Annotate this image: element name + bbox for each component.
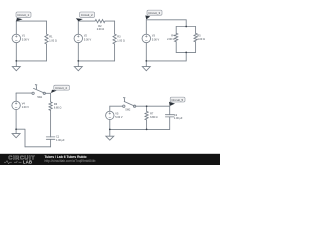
svg-text:Circuit_2: Circuit_2: [81, 13, 93, 17]
label: Circuit_2 tag: [76, 12, 95, 21]
wire: circuit 4 top wire to switch: [16, 92, 32, 94]
voltage source V1: [12, 34, 21, 43]
node: junction block bottom: [185, 52, 187, 54]
voltage source V5: [106, 111, 114, 119]
label: Circuit_1 tag: [16, 12, 31, 21]
label: C1 value: [56, 136, 65, 142]
wire: V1 bottom lead: [15, 43, 17, 61]
wire: switch to C2 corner: [136, 105, 170, 107]
wire: circuit 3 top wire: [146, 19, 186, 21]
wire: stub from parallel block bottom: [185, 52, 187, 61]
label: R1 value: [49, 35, 57, 42]
resistor R1: [45, 34, 48, 44]
wire: V5 bottom lead: [109, 120, 111, 130]
svg-text:5.00 V: 5.00 V: [115, 116, 123, 119]
label: R3 value: [117, 35, 125, 42]
ground (circuit 4): [15, 129, 17, 133]
node: junction circuit 3 ground: [145, 60, 147, 62]
node: junction circuit 5 ground: [109, 129, 111, 131]
svg-text:6.80 Ω: 6.80 Ω: [150, 116, 158, 119]
resistor R4: [175, 33, 178, 41]
wire: R3 top lead: [114, 21, 116, 34]
label: Circuit_5 tag: [169, 97, 185, 106]
voltage source V2: [74, 34, 83, 43]
capacitor C1: [46, 137, 55, 139]
node: junction R7 bottom: [146, 129, 148, 131]
label: Circuit_3 tag: [145, 10, 162, 19]
wire: V2 bottom lead: [77, 43, 79, 61]
CircuitLab logo: [4, 156, 35, 165]
resistor R5: [194, 33, 197, 41]
wire: R3 bottom lead: [114, 44, 116, 61]
svg-text:Circuit_4: Circuit_4: [55, 86, 67, 90]
label: R7 value: [150, 112, 158, 119]
wire: circuit 2 top wire right segment: [105, 20, 114, 22]
node: junction circuit 1 ground: [15, 60, 17, 62]
wire: circuit 5 top wire to switch: [110, 105, 123, 107]
label: V3 value: [152, 35, 160, 42]
switch SW2: [123, 105, 125, 107]
voltage source V3: [142, 34, 151, 43]
wire: R7 bottom lead: [146, 120, 148, 129]
label: V5 value: [115, 112, 123, 119]
wire: parallel block bottom bar: [176, 51, 195, 53]
svg-text:Circuit_1: Circuit_1: [17, 13, 29, 17]
label: Circuit_4 tag: [51, 85, 69, 93]
wire: circuit 3 bottom wire: [146, 60, 186, 62]
resistor R7: [145, 111, 148, 119]
svg-text:1.00 µF: 1.00 µF: [174, 117, 183, 120]
ground (circuit 1): [15, 61, 17, 67]
wire: R1 bottom lead: [46, 44, 48, 61]
wire: circuit 2 bottom wire: [78, 60, 114, 62]
wire: R4 top lead: [175, 27, 177, 34]
ground (circuit 5): [109, 129, 111, 136]
svg-text:SW1: SW1: [37, 97, 43, 99]
svg-text:5.00 V: 5.00 V: [152, 39, 160, 42]
wire: R5 bottom lead: [195, 42, 197, 53]
svg-text:1.00 µF: 1.00 µF: [56, 139, 65, 142]
wire: V3 bottom lead: [145, 43, 147, 61]
wire: C2 top lead: [169, 106, 171, 115]
label: R2 value: [97, 25, 105, 31]
svg-text:http://circuitlab.com/c/7vq59m: http://circuitlab.com/c/7vq59mkt84tb: [45, 159, 96, 163]
wire: circuit 2 top wire left segment: [78, 20, 95, 22]
wire: C2 bottom lead: [169, 117, 171, 129]
wire: V4 bottom lead: [15, 110, 17, 130]
svg-text:SW2: SW2: [125, 110, 131, 112]
label: R5 value: [197, 34, 205, 41]
wire: circuit 4 left vertical (V4 top lead): [15, 93, 17, 101]
svg-text:2.00 Ω: 2.00 Ω: [97, 28, 105, 31]
ground (circuit 2): [77, 61, 79, 67]
svg-text:2.00 Ω: 2.00 Ω: [167, 38, 175, 41]
wire: switch to corner: [46, 93, 51, 102]
wire: R4 bottom lead: [175, 42, 177, 53]
node: junction block top: [185, 26, 187, 28]
svg-text:Circuit_5: Circuit_5: [171, 98, 183, 102]
label: V1 value: [22, 35, 30, 42]
wire: parallel block top bar: [176, 26, 195, 28]
svg-text:1.00 Ω: 1.00 Ω: [197, 38, 205, 41]
svg-text:5.00 V: 5.00 V: [84, 39, 92, 42]
node: junction circuit 2 ground: [77, 60, 79, 62]
wire: stub into parallel block top: [185, 20, 187, 27]
node: junction R7 top: [146, 105, 148, 107]
svg-text:1.00 V: 1.00 V: [22, 106, 30, 109]
ground (circuit 3): [145, 61, 147, 67]
label: C2 value: [174, 114, 183, 120]
label: R4 value: [167, 34, 175, 41]
resistor R3: [113, 34, 116, 44]
wire: circuit 4 bottom wire: [25, 146, 51, 148]
capacitor C2: [165, 115, 174, 117]
wire: circuit 2 left vertical (V2 top lead): [77, 21, 79, 34]
wire: R5 top lead: [195, 27, 197, 34]
svg-text:6.80 Ω: 6.80 Ω: [54, 107, 62, 110]
label: V2 value: [84, 35, 92, 42]
svg-text:1.00 Ω: 1.00 Ω: [49, 39, 57, 42]
wire: circuit 1 left vertical (V1 top lead): [15, 21, 17, 34]
wire: C1 bottom lead: [50, 139, 52, 147]
wire: bottom-left jog: [16, 129, 25, 147]
voltage source V4: [12, 101, 20, 109]
svg-text:1.00 Ω: 1.00 Ω: [117, 39, 125, 42]
label: V4 value: [22, 102, 30, 109]
svg-text:Circuit_3: Circuit_3: [148, 11, 160, 15]
wire: circuit 1 top wire: [16, 20, 46, 22]
resistor R2: [95, 20, 105, 23]
wire: circuit 5 bottom wire: [110, 128, 170, 130]
node: junction circuit 4 ground: [15, 128, 17, 130]
wire: circuit 1 bottom wire: [16, 60, 46, 62]
wire: circuit 1 right vertical (R1 top lead): [46, 21, 48, 34]
resistor R6: [49, 102, 52, 110]
label: R6 value: [54, 103, 62, 110]
switch SW1: [32, 92, 34, 94]
wire: R6 to C1: [50, 110, 52, 136]
wire: circuit 3 left vertical (V3 top lead): [145, 20, 147, 34]
wire: circuit 5 left vertical (V5 top lead): [109, 106, 111, 111]
wire: R7 top lead: [146, 106, 148, 111]
svg-text:5.00 V: 5.00 V: [22, 39, 30, 42]
svg-text:LAB: LAB: [23, 160, 32, 165]
